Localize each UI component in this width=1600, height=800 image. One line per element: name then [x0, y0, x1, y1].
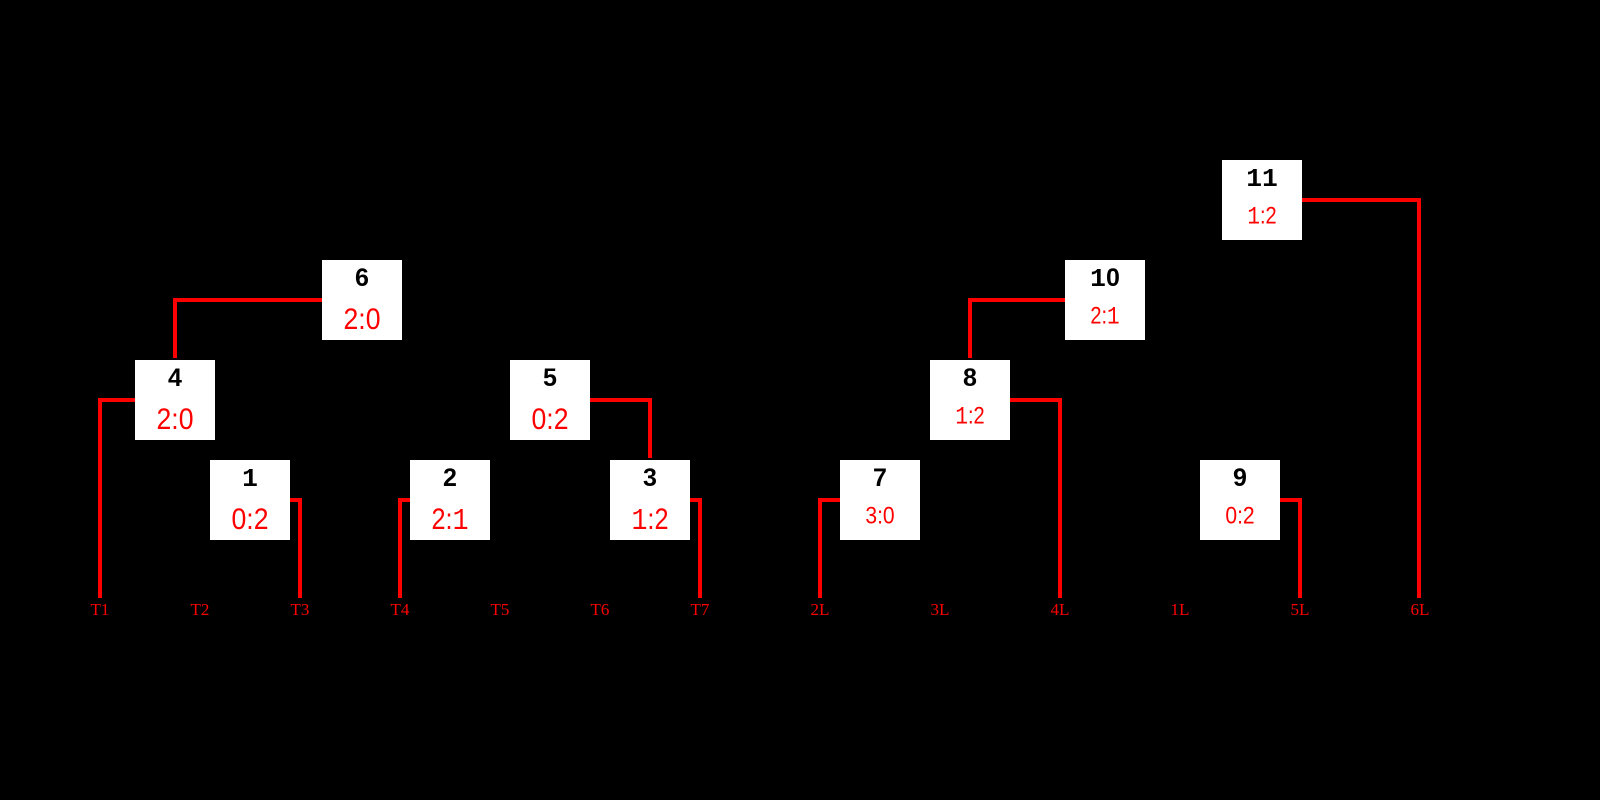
wire match 8 to match 10 — [970, 300, 1065, 358]
match box 9 — [1200, 460, 1280, 540]
svg-text:4L: 4L — [1051, 600, 1070, 619]
wire match 9 to 5L — [1280, 500, 1300, 598]
svg-text:4: 4 — [168, 364, 182, 392]
svg-text:0:2: 0:2 — [1225, 504, 1254, 530]
svg-text:1:2: 1:2 — [632, 503, 669, 539]
svg-text:1: 1 — [242, 464, 258, 494]
svg-text:T7: T7 — [691, 600, 710, 619]
svg-text:5: 5 — [543, 364, 557, 392]
svg-text:T6: T6 — [591, 600, 610, 619]
svg-text:T5: T5 — [491, 600, 510, 619]
svg-text:7: 7 — [873, 464, 887, 492]
wire match 8 to 4L — [1010, 400, 1060, 598]
wire T4 to match 2 — [400, 500, 410, 598]
match box 6 — [322, 260, 402, 340]
svg-text:6L: 6L — [1411, 600, 1430, 619]
svg-text:2:1: 2:1 — [432, 503, 469, 539]
svg-text:T4: T4 — [391, 600, 410, 619]
match box 3 — [610, 460, 690, 540]
svg-text:2:0: 2:0 — [157, 403, 194, 436]
wire match 3 to T7 — [690, 500, 700, 598]
svg-text:3:0: 3:0 — [865, 504, 894, 530]
svg-text:0:2: 0:2 — [232, 503, 269, 536]
svg-text:9: 9 — [1233, 464, 1247, 492]
wire match 1 to T3 — [290, 500, 300, 598]
match box 7 — [840, 460, 920, 540]
svg-text:1:2: 1:2 — [1247, 204, 1276, 232]
svg-text:T2: T2 — [191, 600, 210, 619]
match box 10 — [1065, 260, 1145, 340]
svg-text:6: 6 — [355, 264, 369, 292]
wire match 4 to match 6 — [175, 300, 322, 358]
match box 4 — [135, 360, 215, 440]
match box 1 — [210, 460, 290, 540]
match box 11 — [1222, 160, 1302, 240]
wire T1 to match 4 — [100, 400, 135, 598]
svg-text:8: 8 — [963, 364, 977, 392]
wire 2L to match 7 — [820, 500, 840, 598]
svg-text:2L: 2L — [811, 600, 830, 619]
svg-text:1:2: 1:2 — [955, 404, 984, 432]
svg-text:2: 2 — [443, 464, 457, 492]
match box 2 — [410, 460, 490, 540]
svg-text:3L: 3L — [931, 600, 950, 619]
svg-text:3: 3 — [643, 464, 657, 492]
svg-text:T3: T3 — [291, 600, 310, 619]
svg-text:0:2: 0:2 — [532, 403, 569, 436]
svg-text:2:0: 2:0 — [344, 303, 381, 336]
wire match 5 to match 3 — [590, 400, 650, 458]
svg-text:2:1: 2:1 — [1090, 304, 1119, 332]
svg-text:11: 11 — [1246, 164, 1278, 194]
svg-text:5L: 5L — [1291, 600, 1310, 619]
match box 5 — [510, 360, 590, 440]
wire match 11 to 6L — [1302, 200, 1419, 598]
svg-text:T1: T1 — [91, 600, 110, 619]
svg-text:1L: 1L — [1171, 600, 1190, 619]
svg-text:10: 10 — [1090, 264, 1120, 294]
match box 8 — [930, 360, 1010, 440]
